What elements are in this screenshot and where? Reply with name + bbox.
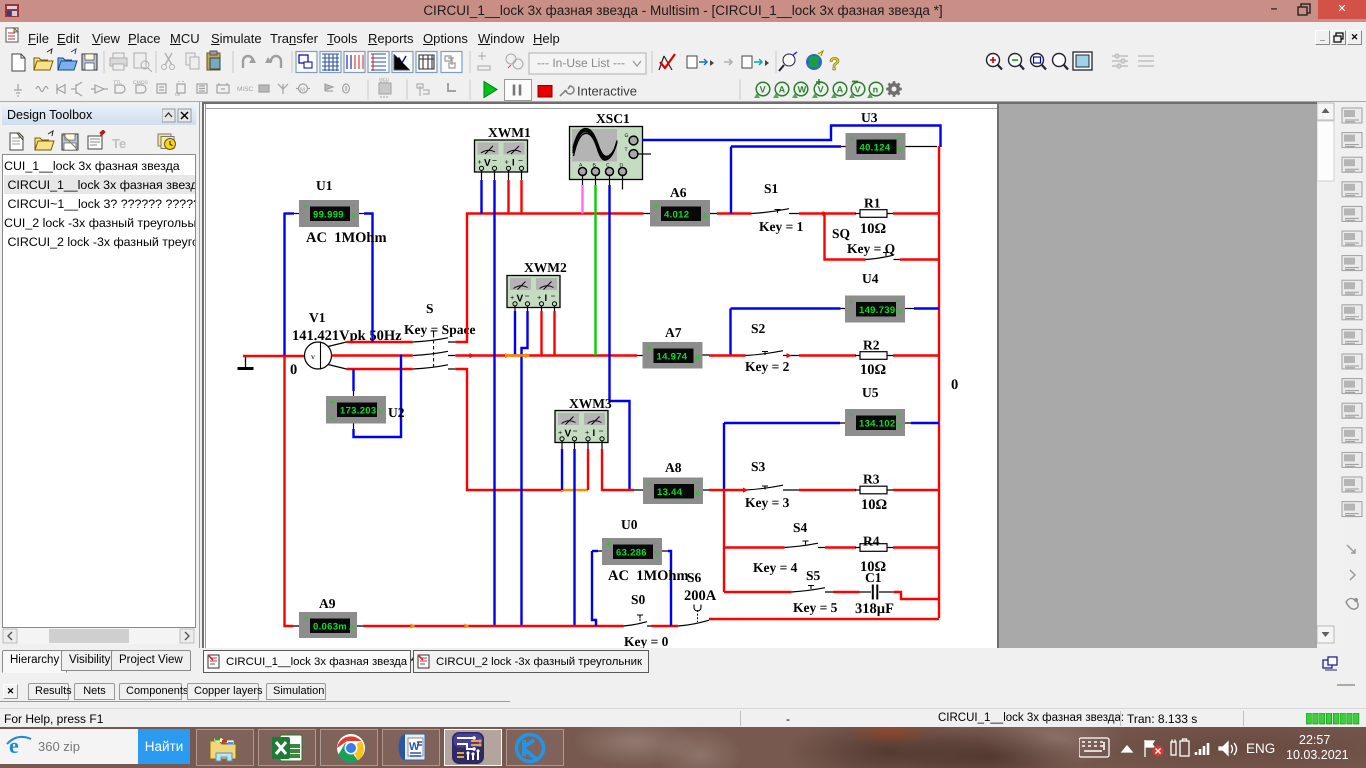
svg-text:−: − (573, 426, 578, 436)
svg-text:A6: A6 (670, 185, 687, 200)
svg-text:?: ? (829, 54, 840, 74)
XWM1 wires (482, 171, 522, 627)
svg-text:XSC1: XSC1 (596, 111, 630, 126)
ammeter A6 (644, 213, 718, 215)
svg-text:+: + (849, 411, 854, 420)
capacitor C1 (855, 570, 894, 617)
svg-text:0: 0 (951, 377, 958, 393)
svg-text:−: − (599, 426, 604, 436)
voltmeter U3 (846, 110, 906, 160)
wattmeter XWM2 (507, 260, 567, 308)
oscilloscope XSC1 (570, 111, 643, 180)
svg-text:40.124: 40.124 (860, 143, 891, 154)
svg-text:U4: U4 (862, 271, 879, 286)
svg-text:S3: S3 (751, 459, 766, 474)
svg-text:M: M (300, 87, 305, 94)
svg-text:Key = 5: Key = 5 (793, 600, 838, 615)
svg-text:−: − (492, 156, 497, 166)
svg-text:−: − (348, 613, 353, 622)
svg-text:SQ: SQ (832, 226, 850, 241)
svg-text:−: − (525, 291, 530, 301)
svg-text:V: V (897, 307, 903, 316)
svg-text:V: V (517, 294, 524, 305)
voltmeter U3 wires (731, 147, 937, 214)
neutral rail (right) (938, 146, 940, 618)
svg-text:A: A (702, 211, 708, 220)
resistor R3 (855, 472, 893, 514)
svg-text:A: A (695, 489, 701, 498)
XSC1 wires (583, 126, 941, 491)
svg-text:+: + (850, 135, 855, 144)
svg-text:S4: S4 (793, 520, 808, 535)
svg-text:S1: S1 (764, 181, 779, 196)
svg-text:+: + (303, 202, 308, 211)
voltmeter U5 (845, 385, 905, 436)
svg-text:134.102: 134.102 (859, 419, 895, 430)
svg-text:A7: A7 (665, 325, 682, 340)
svg-text:Key = 1: Key = 1 (759, 219, 804, 234)
voltmeter U4 wires (731, 309, 940, 356)
svg-text:V1: V1 (309, 310, 326, 325)
svg-text:I: I (512, 158, 515, 169)
XWM2 wires (515, 306, 555, 626)
svg-text:v: v (311, 352, 315, 361)
ammeter A7 display (643, 325, 703, 369)
svg-text:V: V (654, 550, 660, 559)
svg-text:R3: R3 (863, 472, 880, 487)
svg-text:63.286: 63.286 (616, 548, 647, 559)
voltmeter U5 wires (724, 423, 939, 490)
svg-text:−: − (518, 156, 523, 166)
wire phase B after A7, switch S2 (709, 351, 856, 356)
svg-text:−: − (551, 291, 556, 301)
svg-text:S2: S2 (751, 321, 766, 336)
svg-text:S5: S5 (806, 568, 821, 583)
svg-text:10Ω: 10Ω (860, 362, 886, 378)
svg-text:+: + (505, 158, 509, 167)
svg-text:G: G (625, 133, 629, 139)
svg-text:V: V (378, 407, 384, 416)
svg-text:R2: R2 (863, 338, 880, 353)
wire phase B (332, 354, 638, 356)
svg-text:U1: U1 (316, 178, 333, 193)
svg-text:XWM2: XWM2 (524, 260, 567, 275)
svg-text:U0: U0 (621, 517, 638, 532)
svg-text:T: T (625, 147, 628, 153)
svg-text:−: − (330, 414, 335, 423)
svg-text:XWM1: XWM1 (488, 125, 531, 140)
svg-text:V: V (855, 85, 861, 95)
neutral bus (363, 625, 624, 627)
svg-text:10Ω: 10Ω (860, 221, 886, 237)
svg-text:+: + (654, 202, 659, 211)
wire phase A (347, 214, 644, 343)
sheet page border (206, 102, 998, 648)
ammeter A6 display (650, 185, 710, 227)
svg-text:Interactive: Interactive (577, 84, 637, 99)
voltmeter U0 wires (592, 551, 671, 626)
svg-text:S0: S0 (631, 592, 646, 607)
svg-text:Key = Space: Key = Space (404, 322, 475, 337)
svg-text:+: + (537, 293, 541, 302)
wire phase C after A8, switch S3 (709, 485, 856, 490)
svg-text:+: + (478, 158, 482, 167)
svg-text:V: V (898, 145, 904, 154)
svg-text:S6: S6 (687, 570, 702, 585)
svg-text:CMOS: CMOS (133, 80, 149, 86)
svg-text:−: − (896, 410, 901, 419)
current direction arrows (470, 211, 828, 493)
svg-text:−: − (694, 479, 699, 488)
svg-text:U2: U2 (388, 405, 405, 420)
svg-text:C1: C1 (865, 570, 882, 585)
svg-text:0v: 0v (175, 92, 181, 98)
svg-text:173.203: 173.203 (340, 406, 376, 417)
svg-text:AC 1MOhm: AC 1MOhm (608, 568, 689, 584)
svg-text:−: − (897, 134, 902, 143)
svg-text:A: A (349, 623, 355, 632)
resistor R1 (855, 196, 893, 238)
svg-text:W: W (798, 85, 807, 95)
wattmeter XWM3 (555, 396, 612, 443)
svg-text:R4: R4 (863, 534, 880, 549)
svg-text:TTL: TTL (113, 80, 122, 86)
switch S (3-pole, Key = Space) (404, 301, 475, 369)
svg-text:A: A (779, 85, 786, 95)
svg-text:V: V (351, 212, 357, 221)
svg-text:MISC: MISC (237, 86, 254, 93)
svg-text:+: + (647, 480, 652, 489)
ammeter A7 (637, 354, 709, 357)
switch S6 (current controlled) (678, 570, 717, 626)
svg-text:318µF: 318µF (855, 601, 894, 617)
source V1 (305, 342, 347, 369)
svg-text:13.44: 13.44 (657, 487, 683, 498)
svg-text:I: I (545, 293, 548, 304)
svg-text:Key = 2: Key = 2 (745, 359, 790, 374)
svg-text:0: 0 (290, 362, 297, 378)
wire ground to V1 (243, 355, 305, 357)
svg-text:+: + (647, 344, 652, 353)
wire phase C (347, 369, 589, 493)
ammeter A8 display (643, 460, 703, 504)
svg-text:AC 1MOhm: AC 1MOhm (306, 230, 387, 246)
svg-text:U5: U5 (862, 385, 879, 400)
ammeter A9 display (299, 596, 357, 638)
svg-text:4.012: 4.012 (664, 210, 689, 221)
wire phase A after A6, switch S1 (717, 209, 856, 214)
svg-text:−: − (653, 539, 658, 548)
svg-text:+: + (330, 398, 335, 407)
switch S4 row (724, 520, 856, 575)
svg-text:n: n (873, 85, 879, 95)
svg-text:A: A (837, 85, 844, 95)
svg-text:−: − (701, 201, 706, 210)
svg-text:R1: R1 (864, 196, 881, 211)
svg-text:14.974: 14.974 (657, 352, 688, 363)
svg-text:200A: 200A (684, 588, 717, 604)
svg-text:MCU: MCU (379, 77, 389, 82)
switch S5 row (724, 568, 860, 615)
voltmeter U2 (vertical terminals) (354, 355, 402, 438)
switch S0 (624, 592, 669, 649)
svg-text:+: + (510, 293, 514, 302)
svg-text:−: − (694, 343, 699, 352)
svg-text:+: + (849, 298, 854, 307)
svg-text:I: I (593, 428, 596, 439)
voltmeter U0 (602, 517, 662, 565)
svg-text:A: A (695, 353, 701, 362)
svg-text:Key = 0: Key = 0 (624, 634, 669, 648)
svg-text:10Ω: 10Ω (861, 497, 887, 513)
svg-text:U3: U3 (861, 110, 878, 125)
svg-text:V: V (565, 429, 572, 440)
svg-text:+: + (606, 540, 611, 549)
ammeter A9 wires + left return (285, 355, 364, 626)
svg-text:A8: A8 (665, 460, 682, 475)
svg-text:−: − (896, 297, 901, 306)
svg-text:Key = Q: Key = Q (847, 241, 895, 256)
svg-text:149.739: 149.739 (859, 305, 895, 316)
svg-text:+: + (303, 614, 308, 623)
svg-text:99.999: 99.999 (313, 210, 344, 221)
wattmeter XWM1 (475, 125, 531, 172)
svg-text:V: V (760, 85, 766, 95)
svg-text:XWM3: XWM3 (569, 396, 612, 411)
voltmeter U1 (299, 178, 359, 227)
switch SQ branch (825, 214, 941, 260)
svg-text:−: − (350, 201, 355, 210)
svg-text:A9: A9 (319, 596, 336, 611)
resistor R4 (855, 534, 893, 576)
svg-text:+: + (558, 428, 562, 437)
svg-text:Key = 4: Key = 4 (753, 560, 798, 575)
svg-text:+: + (585, 428, 589, 437)
ammeter A8 (634, 489, 709, 491)
XWM3 wires (562, 441, 634, 626)
svg-text:Te: Te (112, 136, 126, 151)
svg-text:V: V (484, 158, 491, 169)
resistor R2 (855, 338, 893, 379)
svg-text:--- In-Use List ---: --- In-Use List --- (537, 56, 625, 70)
voltmeter U4 (845, 271, 905, 323)
branch down to S4/S5 rows (723, 490, 725, 592)
ground (238, 356, 254, 369)
svg-text:S: S (426, 301, 434, 316)
voltmeter U1 wires (285, 213, 373, 357)
svg-text:V: V (818, 85, 824, 95)
svg-text:V: V (897, 421, 903, 430)
svg-text:Key = 3: Key = 3 (745, 495, 790, 510)
svg-text:0.063m: 0.063m (313, 622, 347, 633)
